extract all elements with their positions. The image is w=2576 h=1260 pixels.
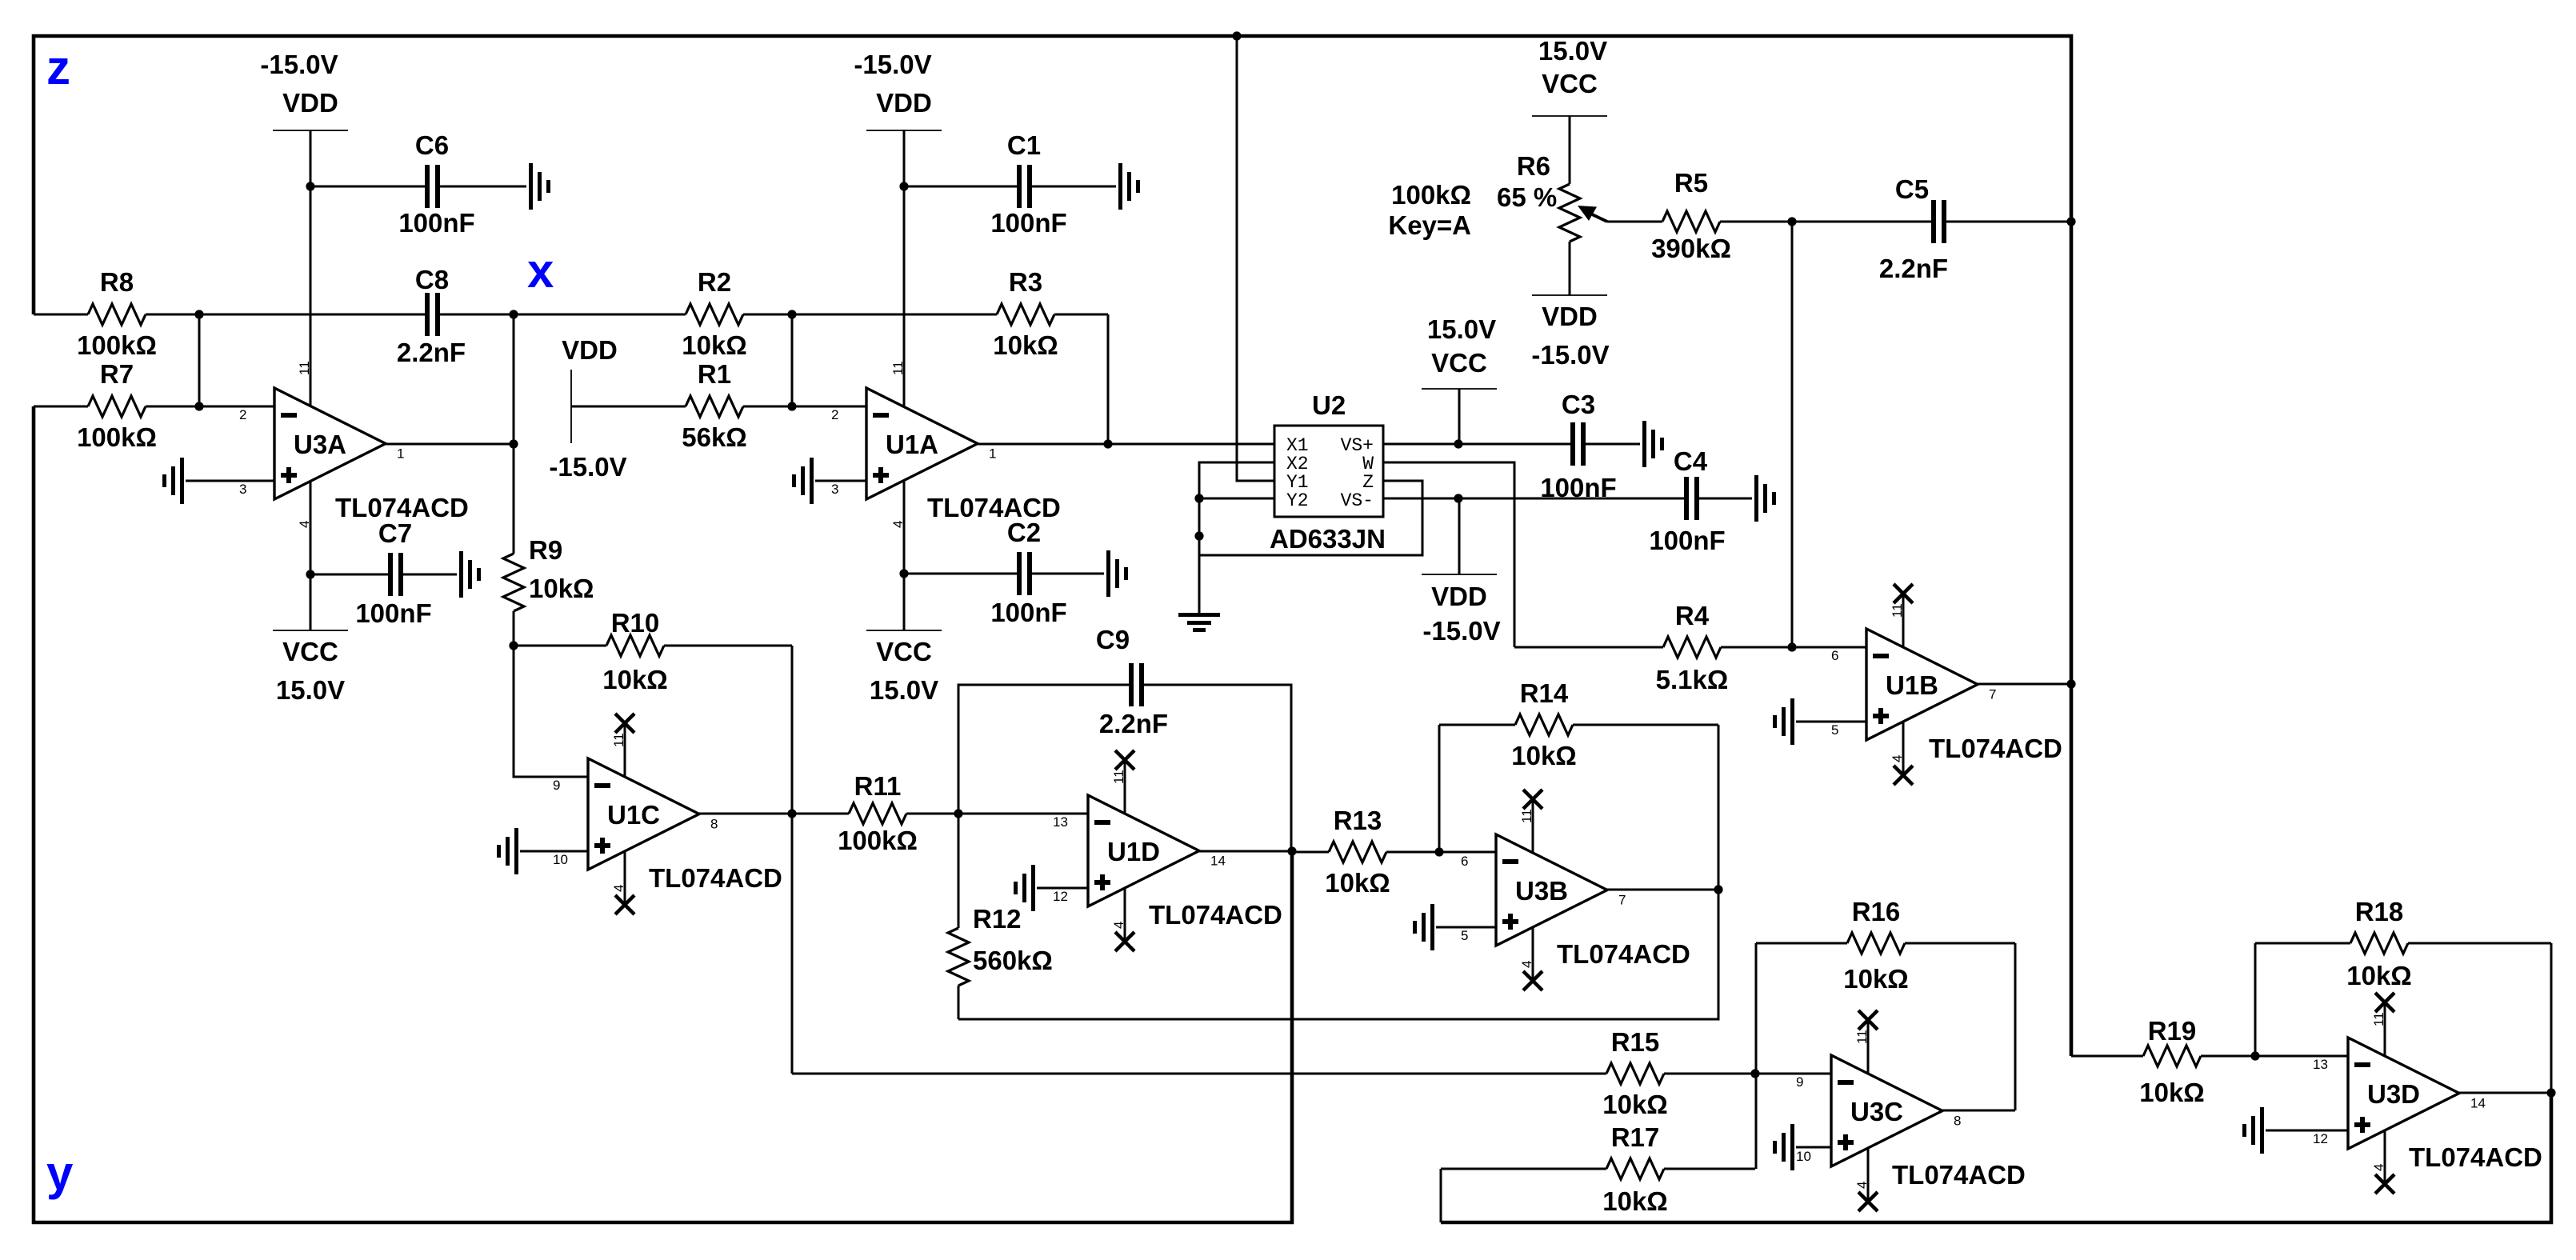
svg-text:10kΩ: 10kΩ <box>1325 868 1390 898</box>
resistor R13 <box>1292 806 1439 898</box>
capacitor C2 <box>904 518 1128 627</box>
label U3D TL074ACD <box>2409 1142 2542 1172</box>
wire y feedback bus (bottom right, R17 to U3D output) <box>1441 1093 2551 1222</box>
svg-text:14: 14 <box>2470 1096 2486 1111</box>
wire Z return <box>1199 481 1422 555</box>
svg-text:11: 11 <box>1111 770 1126 784</box>
resistor R12 <box>948 814 1053 1019</box>
resistor R14 <box>1439 678 1718 770</box>
svg-text:VCC: VCC <box>876 637 932 666</box>
capacitor C5 <box>1792 174 2071 283</box>
resistor R7 <box>34 359 199 452</box>
svg-text:10kΩ: 10kΩ <box>993 330 1058 360</box>
svg-text:390kΩ: 390kΩ <box>1651 234 1731 263</box>
resistor R15 <box>792 1027 1755 1119</box>
svg-text:C9: C9 <box>1096 625 1130 654</box>
wire U3C inverting input <box>1755 1073 1831 1075</box>
junction R9-R10 node <box>509 641 518 650</box>
capacitor C1 <box>904 130 1140 238</box>
svg-text:6: 6 <box>1461 854 1468 869</box>
wire R5 to R4 vertical <box>1791 222 1794 647</box>
junction R7 node <box>194 402 203 410</box>
svg-text:560kΩ: 560kΩ <box>973 946 1053 975</box>
label U1C TL074ACD <box>649 863 782 893</box>
wire Y1 to z bus <box>1237 36 1274 481</box>
svg-text:U3D: U3D <box>2367 1079 2420 1109</box>
wire R16 right vertical <box>2014 943 2017 1110</box>
svg-text:65 %: 65 % <box>1497 182 1557 212</box>
wire z bus (top and left border, from U1B output to R8) <box>34 36 2071 1056</box>
svg-text:-15.0V: -15.0V <box>549 452 626 482</box>
svg-text:5: 5 <box>1461 928 1468 943</box>
svg-text:10kΩ: 10kΩ <box>1602 1186 1668 1216</box>
junction U1B output node <box>2066 679 2075 688</box>
label U3A TL074ACD <box>335 493 469 522</box>
svg-text:C3: C3 <box>1562 390 1595 419</box>
svg-text:4: 4 <box>1111 922 1126 929</box>
junction VS+ node <box>1454 439 1462 448</box>
op-amp U3D <box>2313 993 2486 1194</box>
junction U1C output node <box>787 809 796 818</box>
junction R1 node <box>787 402 796 410</box>
node z label <box>46 41 70 94</box>
svg-text:100nF: 100nF <box>990 208 1066 238</box>
resistor R2 <box>514 267 792 360</box>
svg-text:4: 4 <box>2371 1164 2386 1171</box>
resistor R3 <box>792 267 1108 360</box>
svg-text:C1: C1 <box>1007 130 1041 160</box>
wire U3C output <box>1942 1110 2015 1112</box>
op-amp U3A <box>239 388 404 499</box>
junction R8 node <box>194 310 203 318</box>
wire R14 right vertical <box>1718 725 1720 890</box>
wire VS+ stub <box>1383 443 1458 446</box>
wire U1A inverting input <box>792 406 866 408</box>
resistor R1 <box>571 359 792 452</box>
svg-text:4: 4 <box>611 885 626 892</box>
resistor R4 <box>1514 601 1792 694</box>
svg-text:3: 3 <box>831 482 838 497</box>
svg-text:10kΩ: 10kΩ <box>1602 1090 1668 1119</box>
wire R2-R1 junction vertical <box>791 314 794 406</box>
svg-text:10kΩ: 10kΩ <box>2346 961 2412 990</box>
svg-text:VCC: VCC <box>1542 69 1598 98</box>
svg-text:11: 11 <box>890 361 906 375</box>
junction U3C input node <box>1750 1069 1759 1078</box>
wire U3B inverting input <box>1439 851 1496 854</box>
svg-text:5.1kΩ: 5.1kΩ <box>1656 665 1729 694</box>
svg-text:VCC: VCC <box>282 637 338 666</box>
svg-text:10kΩ: 10kΩ <box>682 330 747 360</box>
ground U3A pin3 <box>162 458 274 504</box>
junction U3A output node <box>509 439 518 448</box>
svg-text:11: 11 <box>1519 809 1534 823</box>
svg-text:4: 4 <box>1519 961 1534 968</box>
svg-text:R7: R7 <box>100 359 134 389</box>
svg-text:10kΩ: 10kΩ <box>1511 741 1577 770</box>
svg-text:R6: R6 <box>1517 151 1550 181</box>
svg-text:10kΩ: 10kΩ <box>1843 964 1909 994</box>
svg-text:R8: R8 <box>100 267 134 297</box>
svg-text:4: 4 <box>1890 755 1905 762</box>
svg-text:R9: R9 <box>529 535 562 565</box>
svg-text:11: 11 <box>297 361 312 375</box>
svg-text:VDD: VDD <box>282 88 338 118</box>
power VCC U2 <box>1422 314 1497 444</box>
svg-text:VDD: VDD <box>876 88 932 118</box>
svg-text:R17: R17 <box>1611 1122 1660 1152</box>
svg-text:13: 13 <box>2313 1057 2328 1072</box>
svg-text:6: 6 <box>1831 648 1838 663</box>
svg-text:C6: C6 <box>415 130 449 160</box>
resistor R8 <box>34 267 199 360</box>
capacitor C6 <box>310 130 550 238</box>
ground U1C pin10 <box>497 828 588 874</box>
svg-text:4: 4 <box>297 521 312 528</box>
resistor R17 <box>1441 1122 1755 1216</box>
junction U3B output node <box>1714 885 1722 894</box>
junction U1D input node <box>954 809 962 818</box>
svg-text:AD633JN: AD633JN <box>1270 524 1386 554</box>
wire U3B output <box>1607 889 1718 891</box>
op-amp U1B <box>1831 584 1996 785</box>
svg-text:10kΩ: 10kΩ <box>602 665 668 694</box>
svg-text:R4: R4 <box>1675 601 1710 630</box>
op-amp U1D <box>1053 750 1226 951</box>
wire Y2 stub <box>1199 498 1274 500</box>
svg-text:VDD: VDD <box>1431 582 1487 611</box>
junction C7 tap <box>306 570 314 578</box>
svg-text:13: 13 <box>1053 814 1068 830</box>
svg-text:10kΩ: 10kΩ <box>529 574 594 603</box>
wire U1D output <box>1199 850 1292 853</box>
op-amp U3B <box>1461 790 1626 990</box>
wire R18 right vertical <box>2550 943 2553 1093</box>
op-amp U1C <box>553 714 718 914</box>
svg-text:R18: R18 <box>2355 897 2404 926</box>
svg-text:100kΩ: 100kΩ <box>1391 180 1471 210</box>
junction Y2 node <box>1194 494 1203 502</box>
svg-text:C7: C7 <box>378 518 412 548</box>
svg-text:100kΩ: 100kΩ <box>838 826 918 855</box>
op-amp U1A <box>831 388 996 499</box>
svg-text:12: 12 <box>2313 1131 2328 1146</box>
svg-text:-15.0V: -15.0V <box>260 50 338 79</box>
svg-text:-15.0V: -15.0V <box>854 50 931 79</box>
junction R13-R14 node <box>1434 847 1443 856</box>
svg-text:z: z <box>46 41 70 94</box>
junction R4 node <box>1787 642 1796 651</box>
svg-text:R12: R12 <box>973 904 1022 934</box>
svg-text:3: 3 <box>239 482 246 497</box>
wire R3 right vertical <box>1107 314 1110 444</box>
svg-text:x: x <box>527 244 554 298</box>
resistor R18 <box>2255 897 2551 990</box>
svg-text:C2: C2 <box>1007 518 1041 547</box>
svg-text:Y2: Y2 <box>1286 490 1309 511</box>
wire U3D inverting input <box>2255 1055 2348 1058</box>
wire W output <box>1383 462 1514 647</box>
svg-text:14: 14 <box>1210 854 1226 869</box>
wire R14 left vertical <box>1438 725 1441 852</box>
wire U3A output <box>386 443 514 446</box>
svg-text:100kΩ: 100kΩ <box>77 422 157 452</box>
wire y bus (left border and bottom border to U1D output) <box>34 406 1292 1222</box>
svg-text:TL074ACD: TL074ACD <box>1892 1160 2026 1190</box>
junction U1A output node <box>1103 439 1112 448</box>
svg-text:U3C: U3C <box>1850 1097 1903 1126</box>
svg-text:VDD: VDD <box>562 335 618 365</box>
svg-text:2.2nF: 2.2nF <box>1879 254 1948 283</box>
wire U1C inverting input <box>514 646 588 777</box>
junction Y1 top node <box>1232 31 1241 40</box>
junction x node <box>509 310 518 318</box>
op-amp U3C <box>1796 1010 1961 1211</box>
power VDD R6 <box>1531 295 1609 370</box>
svg-text:11: 11 <box>611 733 626 747</box>
capacitor C8 <box>199 265 514 367</box>
svg-text:2.2nF: 2.2nF <box>1099 709 1168 738</box>
svg-text:10: 10 <box>553 852 568 867</box>
node y label <box>46 1146 74 1200</box>
svg-text:R19: R19 <box>2148 1016 2197 1046</box>
svg-text:10kΩ: 10kΩ <box>2139 1078 2205 1107</box>
svg-text:C4: C4 <box>1674 446 1708 476</box>
svg-text:15.0V: 15.0V <box>1427 314 1496 344</box>
svg-text:R1: R1 <box>698 359 731 389</box>
svg-text:TL074ACD: TL074ACD <box>2409 1142 2542 1172</box>
wire U1B output <box>1978 683 2071 686</box>
svg-text:15.0V: 15.0V <box>1538 36 1607 66</box>
svg-text:TL074ACD: TL074ACD <box>649 863 782 893</box>
svg-text:7: 7 <box>1618 893 1626 908</box>
power VDD U1A pin11 <box>854 50 942 406</box>
svg-text:4: 4 <box>1854 1182 1870 1189</box>
power VDD U2 <box>1422 498 1501 646</box>
wire U1C output <box>699 813 792 815</box>
svg-text:U3B: U3B <box>1515 876 1568 906</box>
power VCC U3A pin4 <box>273 482 348 705</box>
svg-text:100nF: 100nF <box>1649 526 1725 555</box>
svg-text:R11: R11 <box>854 771 902 801</box>
capacitor C4 <box>1458 446 1776 555</box>
svg-text:U1B: U1B <box>1886 670 1938 700</box>
resistor R10 <box>514 608 792 694</box>
wire U3D output <box>2459 1092 2551 1094</box>
svg-text:Key=A: Key=A <box>1388 210 1471 240</box>
resistor R16 <box>1756 897 2015 994</box>
svg-text:7: 7 <box>1989 687 1996 702</box>
junction U1D output node <box>1287 846 1296 855</box>
svg-text:R14: R14 <box>1520 678 1569 708</box>
power VCC U1A pin4 <box>866 482 942 705</box>
node x label <box>527 244 554 298</box>
svg-text:R10: R10 <box>611 608 660 638</box>
capacitor C7 <box>310 518 481 628</box>
wire R10 right vertical <box>791 646 794 1074</box>
svg-text:5: 5 <box>1831 722 1838 738</box>
svg-text:10: 10 <box>1796 1149 1811 1164</box>
ground U3D pin12 <box>2242 1107 2348 1154</box>
wire U1D inverting input <box>958 813 1088 815</box>
wire R8-R7 junction vertical <box>198 314 201 406</box>
wire U1B inverting input <box>1792 646 1866 649</box>
svg-text:15.0V: 15.0V <box>276 675 345 705</box>
power VDD U3A pin11 <box>260 50 348 406</box>
svg-text:2: 2 <box>239 407 246 422</box>
svg-text:TL074ACD: TL074ACD <box>1149 900 1282 930</box>
svg-text:R13: R13 <box>1334 806 1382 835</box>
ground U2 <box>1178 613 1220 632</box>
svg-text:100nF: 100nF <box>355 598 431 628</box>
multiplier U2 box <box>1270 390 1386 554</box>
resistor R5 <box>1607 168 1792 263</box>
svg-text:9: 9 <box>1796 1074 1803 1090</box>
svg-text:C8: C8 <box>415 265 449 294</box>
wire U1A output to X1 <box>1108 443 1274 446</box>
svg-text:9: 9 <box>553 778 560 793</box>
svg-text:8: 8 <box>1954 1114 1961 1129</box>
label U3C TL074ACD <box>1892 1160 2026 1190</box>
label U1D TL074ACD <box>1149 900 1282 930</box>
svg-text:U2: U2 <box>1312 390 1346 420</box>
label U3B TL074ACD <box>1557 939 1690 969</box>
junction C6 tap <box>306 182 314 190</box>
power VDD R1 <box>549 335 626 482</box>
ground U1A pin3 <box>792 458 866 504</box>
svg-text:11: 11 <box>1854 1030 1870 1044</box>
svg-text:TL074ACD: TL074ACD <box>1929 734 2062 763</box>
label U1B TL074ACD <box>1929 734 2062 763</box>
svg-text:R2: R2 <box>698 267 731 297</box>
wire VS- stub <box>1383 498 1458 500</box>
svg-text:R15: R15 <box>1611 1027 1660 1057</box>
svg-text:1: 1 <box>989 446 996 462</box>
junction R5-C5 node <box>1787 217 1796 226</box>
wire R17 left vertical <box>1440 1169 1442 1222</box>
capacitor C9 <box>958 625 1291 851</box>
svg-text:R5: R5 <box>1674 168 1708 198</box>
ground U3C pin10 <box>1773 1124 1831 1170</box>
label U2 pin names <box>1286 435 1374 511</box>
svg-text:y: y <box>46 1146 74 1200</box>
svg-text:U1A: U1A <box>886 430 938 459</box>
svg-text:15.0V: 15.0V <box>870 675 938 705</box>
wire R18 left vertical <box>2254 943 2257 1056</box>
svg-text:8: 8 <box>710 817 718 832</box>
svg-text:-15.0V: -15.0V <box>1531 340 1609 370</box>
wire R12 bottom loop <box>958 890 1718 1019</box>
svg-text:2: 2 <box>831 407 838 422</box>
ground U1D pin12 <box>1014 865 1088 911</box>
junction U2 ground node <box>1194 531 1203 540</box>
junction R2 node <box>787 310 796 318</box>
svg-text:VDD: VDD <box>1542 302 1598 331</box>
svg-text:1: 1 <box>397 446 404 462</box>
svg-text:11: 11 <box>2371 1012 2386 1026</box>
junction C5 z-bus node <box>2066 217 2075 226</box>
power VCC R6 <box>1532 36 1607 116</box>
svg-text:2.2nF: 2.2nF <box>397 338 466 367</box>
wire R16 left vertical <box>1755 943 1758 1169</box>
svg-text:100nF: 100nF <box>990 598 1066 627</box>
svg-text:U3A: U3A <box>294 430 346 459</box>
svg-text:VCC: VCC <box>1431 348 1487 378</box>
junction U3D input node <box>2250 1051 2259 1060</box>
svg-text:56kΩ: 56kΩ <box>682 422 747 452</box>
potentiometer R6 <box>1388 116 1607 295</box>
svg-text:TL074ACD: TL074ACD <box>1557 939 1690 969</box>
svg-text:C5: C5 <box>1895 174 1929 204</box>
wire x node vertical <box>513 314 515 444</box>
junction C1 tap <box>899 182 908 190</box>
svg-text:R3: R3 <box>1009 267 1042 297</box>
resistor R11 <box>792 771 958 855</box>
resistor R19 <box>2071 1016 2255 1107</box>
junction U3D output node <box>2546 1088 2555 1097</box>
svg-text:100nF: 100nF <box>398 208 474 238</box>
capacitor C3 <box>1458 390 1664 502</box>
svg-text:4: 4 <box>890 521 906 528</box>
svg-text:-15.0V: -15.0V <box>1422 616 1500 646</box>
ground U1B pin5 <box>1773 698 1866 745</box>
svg-text:11: 11 <box>1890 603 1905 618</box>
label U1A TL074ACD <box>927 493 1061 522</box>
svg-text:U1D: U1D <box>1107 837 1160 866</box>
svg-text:R16: R16 <box>1852 897 1901 926</box>
svg-text:U1C: U1C <box>607 800 660 830</box>
wire X2 to ground <box>1199 462 1274 613</box>
svg-text:12: 12 <box>1053 889 1068 904</box>
junction VS- node <box>1454 494 1462 502</box>
wire U1A output <box>978 443 1108 446</box>
resistor R9 <box>503 444 594 646</box>
wire U3A inverting input <box>199 406 274 408</box>
svg-text:VS-: VS- <box>1341 490 1374 511</box>
ground U3B pin5 <box>1413 904 1496 950</box>
junction C2 tap <box>899 569 908 578</box>
svg-text:100kΩ: 100kΩ <box>77 330 157 360</box>
